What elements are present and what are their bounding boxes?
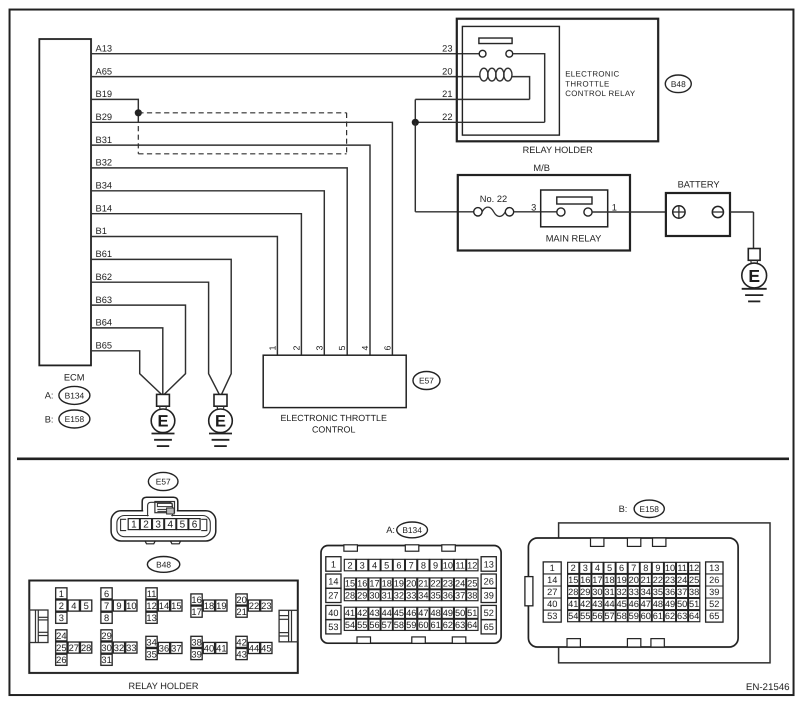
svg-text:10: 10 <box>126 600 136 611</box>
svg-text:52: 52 <box>484 608 494 618</box>
svg-text:29: 29 <box>357 590 367 600</box>
svg-text:B1: B1 <box>96 226 107 236</box>
svg-text:23: 23 <box>261 600 271 611</box>
svg-text:55: 55 <box>357 620 367 630</box>
svg-text:14: 14 <box>547 575 557 585</box>
svg-text:35: 35 <box>146 649 156 660</box>
svg-text:B63: B63 <box>96 295 113 305</box>
svg-text:6: 6 <box>396 560 401 570</box>
svg-text:51: 51 <box>467 608 477 618</box>
svg-text:EN-21546: EN-21546 <box>746 682 790 693</box>
svg-text:20: 20 <box>236 594 246 605</box>
svg-text:44: 44 <box>604 599 614 609</box>
svg-text:1: 1 <box>267 346 277 351</box>
svg-text:31: 31 <box>101 654 111 665</box>
svg-text:22: 22 <box>430 579 440 589</box>
svg-text:64: 64 <box>467 620 477 630</box>
svg-text:35: 35 <box>653 587 663 597</box>
svg-text:40: 40 <box>204 642 214 653</box>
svg-text:B32: B32 <box>96 158 113 168</box>
svg-text:39: 39 <box>191 649 201 660</box>
svg-text:39: 39 <box>709 587 719 597</box>
svg-text:35: 35 <box>430 590 440 600</box>
svg-text:18: 18 <box>382 579 392 589</box>
svg-text:49: 49 <box>443 608 453 618</box>
svg-text:27: 27 <box>328 591 338 601</box>
svg-text:23: 23 <box>443 579 453 589</box>
svg-text:5: 5 <box>180 520 186 531</box>
svg-text:54: 54 <box>345 620 355 630</box>
svg-text:25: 25 <box>467 579 477 589</box>
svg-text:53: 53 <box>547 611 557 621</box>
svg-text:59: 59 <box>629 611 639 621</box>
svg-text:51: 51 <box>689 599 699 609</box>
svg-text:30: 30 <box>369 590 379 600</box>
svg-text:44: 44 <box>382 608 392 618</box>
svg-text:5: 5 <box>337 346 347 351</box>
svg-text:3: 3 <box>155 520 161 531</box>
svg-text:3: 3 <box>531 202 536 212</box>
svg-text:26: 26 <box>56 654 66 665</box>
svg-text:58: 58 <box>617 611 627 621</box>
svg-text:B:: B: <box>45 414 54 424</box>
svg-text:2: 2 <box>291 346 301 351</box>
svg-text:3: 3 <box>314 346 324 351</box>
svg-text:34: 34 <box>641 587 651 597</box>
svg-text:B65: B65 <box>96 340 113 350</box>
svg-text:33: 33 <box>629 587 639 597</box>
svg-text:A13: A13 <box>96 43 113 53</box>
svg-text:12: 12 <box>467 560 477 570</box>
svg-text:21: 21 <box>418 579 428 589</box>
svg-text:32: 32 <box>617 587 627 597</box>
svg-text:63: 63 <box>677 611 687 621</box>
svg-text:B134: B134 <box>65 390 85 400</box>
svg-text:33: 33 <box>126 642 136 653</box>
svg-text:36: 36 <box>665 587 675 597</box>
svg-text:13: 13 <box>484 559 494 569</box>
svg-text:53: 53 <box>328 622 338 632</box>
svg-text:8: 8 <box>421 560 426 570</box>
svg-text:60: 60 <box>418 620 428 630</box>
svg-text:RELAY HOLDER: RELAY HOLDER <box>523 145 593 155</box>
svg-text:16: 16 <box>357 579 367 589</box>
svg-text:9: 9 <box>655 563 660 573</box>
svg-text:55: 55 <box>580 611 590 621</box>
svg-text:BATTERY: BATTERY <box>678 179 720 189</box>
svg-text:8: 8 <box>643 563 648 573</box>
svg-text:36: 36 <box>159 642 169 653</box>
svg-text:27: 27 <box>69 642 79 653</box>
svg-text:26: 26 <box>484 576 494 586</box>
svg-text:62: 62 <box>665 611 675 621</box>
svg-text:B14: B14 <box>96 203 113 213</box>
svg-text:11: 11 <box>147 588 157 599</box>
svg-text:21: 21 <box>641 575 651 585</box>
svg-text:B48: B48 <box>671 79 686 89</box>
svg-text:61: 61 <box>653 611 663 621</box>
svg-text:31: 31 <box>382 590 392 600</box>
svg-text:9: 9 <box>433 560 438 570</box>
svg-text:13: 13 <box>146 612 156 623</box>
svg-text:12: 12 <box>146 600 156 611</box>
svg-text:61: 61 <box>430 620 440 630</box>
svg-text:No. 22: No. 22 <box>480 194 507 204</box>
svg-text:57: 57 <box>382 620 392 630</box>
svg-text:2: 2 <box>59 600 64 611</box>
svg-text:B:: B: <box>619 504 628 514</box>
svg-text:22: 22 <box>653 575 663 585</box>
svg-text:19: 19 <box>616 575 626 585</box>
svg-text:4: 4 <box>595 563 600 573</box>
svg-text:4: 4 <box>372 560 377 570</box>
svg-text:16: 16 <box>191 594 201 605</box>
svg-text:25: 25 <box>56 642 66 653</box>
svg-text:59: 59 <box>406 620 416 630</box>
svg-text:64: 64 <box>689 611 699 621</box>
svg-text:ELECTRONIC THROTTLE: ELECTRONIC THROTTLE <box>281 413 387 423</box>
svg-text:4: 4 <box>360 346 370 351</box>
svg-text:43: 43 <box>369 608 379 618</box>
svg-text:CONTROL RELAY: CONTROL RELAY <box>565 89 636 98</box>
svg-text:3: 3 <box>59 612 64 623</box>
svg-text:ECM: ECM <box>64 372 85 382</box>
svg-text:28: 28 <box>81 642 91 653</box>
svg-text:6: 6 <box>619 563 624 573</box>
svg-text:7: 7 <box>104 600 109 611</box>
svg-text:46: 46 <box>629 599 639 609</box>
svg-text:4: 4 <box>168 520 174 531</box>
svg-text:29: 29 <box>101 630 111 641</box>
svg-text:B29: B29 <box>96 112 113 122</box>
svg-text:26: 26 <box>709 575 719 585</box>
svg-text:6: 6 <box>192 520 198 531</box>
svg-text:10: 10 <box>443 560 453 570</box>
svg-text:B19: B19 <box>96 89 113 99</box>
svg-text:48: 48 <box>430 608 440 618</box>
svg-text:42: 42 <box>357 608 367 618</box>
svg-text:18: 18 <box>604 575 614 585</box>
svg-text:62: 62 <box>443 620 453 630</box>
svg-text:58: 58 <box>394 620 404 630</box>
svg-text:15: 15 <box>345 579 355 589</box>
svg-text:42: 42 <box>580 599 590 609</box>
svg-text:B134: B134 <box>402 525 422 535</box>
svg-text:B61: B61 <box>96 249 113 259</box>
svg-text:28: 28 <box>568 587 578 597</box>
svg-text:B34: B34 <box>96 181 113 191</box>
svg-text:63: 63 <box>455 620 465 630</box>
svg-text:1: 1 <box>550 563 555 573</box>
svg-text:7: 7 <box>409 560 414 570</box>
svg-text:3: 3 <box>583 563 588 573</box>
svg-text:20: 20 <box>406 579 416 589</box>
svg-text:5: 5 <box>84 600 89 611</box>
svg-text:32: 32 <box>114 642 124 653</box>
svg-text:A65: A65 <box>96 66 113 76</box>
svg-text:34: 34 <box>418 590 428 600</box>
svg-text:24: 24 <box>677 575 687 585</box>
svg-text:10: 10 <box>665 563 675 573</box>
svg-text:6: 6 <box>382 346 392 351</box>
svg-text:5: 5 <box>607 563 612 573</box>
svg-text:24: 24 <box>455 579 465 589</box>
svg-text:22: 22 <box>442 112 452 122</box>
svg-text:46: 46 <box>406 608 416 618</box>
svg-text:4: 4 <box>71 600 76 611</box>
svg-text:47: 47 <box>641 599 651 609</box>
svg-text:1: 1 <box>59 588 64 599</box>
svg-text:43: 43 <box>236 649 246 660</box>
svg-text:THROTTLE: THROTTLE <box>565 79 609 88</box>
svg-text:17: 17 <box>592 575 602 585</box>
svg-text:40: 40 <box>328 608 338 618</box>
svg-text:49: 49 <box>665 599 675 609</box>
svg-text:39: 39 <box>484 591 494 601</box>
svg-text:ELECTRONIC: ELECTRONIC <box>565 70 619 79</box>
svg-text:21: 21 <box>236 606 246 617</box>
svg-text:E158: E158 <box>639 504 659 514</box>
svg-text:RELAY HOLDER: RELAY HOLDER <box>128 681 198 691</box>
svg-text:44: 44 <box>249 642 259 653</box>
svg-text:M/B: M/B <box>533 163 550 173</box>
svg-text:30: 30 <box>592 587 602 597</box>
svg-text:52: 52 <box>709 599 719 609</box>
svg-text:33: 33 <box>406 590 416 600</box>
svg-text:27: 27 <box>547 587 557 597</box>
svg-text:28: 28 <box>345 590 355 600</box>
svg-text:40: 40 <box>547 599 557 609</box>
svg-text:38: 38 <box>467 590 477 600</box>
svg-text:18: 18 <box>204 600 214 611</box>
svg-text:E: E <box>157 413 168 431</box>
svg-text:E57: E57 <box>156 477 171 487</box>
svg-text:B62: B62 <box>96 272 113 282</box>
svg-text:38: 38 <box>191 636 201 647</box>
svg-text:41: 41 <box>568 599 578 609</box>
svg-text:MAIN RELAY: MAIN RELAY <box>546 234 602 244</box>
svg-text:30: 30 <box>101 642 111 653</box>
svg-text:2: 2 <box>347 560 352 570</box>
svg-text:B48: B48 <box>156 559 171 569</box>
svg-text:34: 34 <box>146 636 156 647</box>
svg-text:16: 16 <box>580 575 590 585</box>
svg-text:11: 11 <box>677 563 687 573</box>
svg-text:3: 3 <box>360 560 365 570</box>
svg-text:B31: B31 <box>96 135 113 145</box>
svg-text:45: 45 <box>394 608 404 618</box>
svg-text:14: 14 <box>159 600 169 611</box>
svg-text:42: 42 <box>236 636 246 647</box>
svg-text:32: 32 <box>394 590 404 600</box>
svg-text:11: 11 <box>455 560 465 570</box>
svg-text:8: 8 <box>104 612 109 623</box>
svg-text:65: 65 <box>709 611 719 621</box>
svg-text:13: 13 <box>709 563 719 573</box>
svg-text:24: 24 <box>56 630 66 641</box>
svg-text:41: 41 <box>345 608 355 618</box>
svg-text:20: 20 <box>442 66 452 76</box>
svg-text:37: 37 <box>455 590 465 600</box>
svg-text:21: 21 <box>442 89 452 99</box>
svg-text:50: 50 <box>677 599 687 609</box>
svg-text:38: 38 <box>689 587 699 597</box>
svg-text:36: 36 <box>443 590 453 600</box>
svg-text:31: 31 <box>604 587 614 597</box>
svg-text:25: 25 <box>689 575 699 585</box>
svg-text:7: 7 <box>631 563 636 573</box>
svg-text:56: 56 <box>592 611 602 621</box>
svg-text:E: E <box>748 266 760 286</box>
svg-text:B64: B64 <box>96 318 113 328</box>
svg-text:45: 45 <box>617 599 627 609</box>
svg-text:19: 19 <box>394 579 404 589</box>
svg-text:29: 29 <box>580 587 590 597</box>
svg-text:43: 43 <box>592 599 602 609</box>
svg-text:19: 19 <box>216 600 226 611</box>
svg-text:2: 2 <box>571 563 576 573</box>
svg-text:A:: A: <box>386 525 395 535</box>
svg-text:14: 14 <box>328 576 338 586</box>
svg-text:12: 12 <box>689 563 699 573</box>
svg-text:41: 41 <box>216 642 226 653</box>
svg-text:CONTROL: CONTROL <box>312 424 355 434</box>
svg-text:E: E <box>215 413 226 431</box>
svg-text:17: 17 <box>369 579 379 589</box>
svg-text:6: 6 <box>104 588 109 599</box>
svg-text:48: 48 <box>653 599 663 609</box>
svg-text:22: 22 <box>249 600 259 611</box>
svg-text:45: 45 <box>261 642 271 653</box>
svg-text:5: 5 <box>384 560 389 570</box>
svg-text:1: 1 <box>131 520 137 531</box>
svg-text:23: 23 <box>442 43 452 53</box>
svg-text:1: 1 <box>331 559 336 569</box>
svg-text:50: 50 <box>455 608 465 618</box>
svg-text:37: 37 <box>677 587 687 597</box>
svg-text:23: 23 <box>665 575 675 585</box>
svg-text:65: 65 <box>484 622 494 632</box>
svg-text:1: 1 <box>612 202 617 212</box>
svg-text:37: 37 <box>171 642 181 653</box>
svg-text:17: 17 <box>191 606 201 617</box>
svg-text:56: 56 <box>369 620 379 630</box>
svg-text:57: 57 <box>604 611 614 621</box>
svg-text:9: 9 <box>116 600 121 611</box>
svg-text:E158: E158 <box>65 414 85 424</box>
svg-text:E57: E57 <box>419 376 434 386</box>
svg-text:54: 54 <box>568 611 578 621</box>
svg-text:2: 2 <box>143 520 149 531</box>
svg-text:60: 60 <box>641 611 651 621</box>
svg-text:47: 47 <box>418 608 428 618</box>
svg-text:20: 20 <box>629 575 639 585</box>
svg-text:15: 15 <box>171 600 181 611</box>
svg-text:A:: A: <box>45 391 54 401</box>
svg-text:15: 15 <box>568 575 578 585</box>
